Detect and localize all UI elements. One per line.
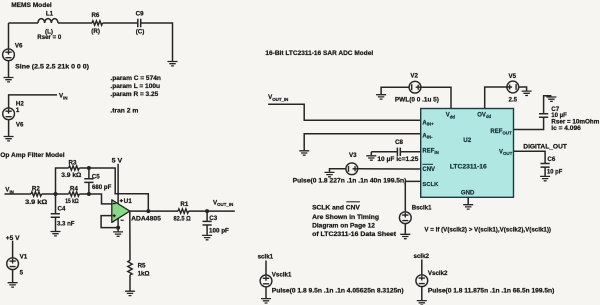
svg-text:ic = 4.096: ic = 4.096 bbox=[551, 125, 581, 132]
wire AIN- to ground bbox=[304, 134, 421, 151]
wire sclk1 to Vsclk1 bbox=[265, 261, 267, 275]
wire chip GND pin bbox=[467, 197, 469, 204]
node A junction bbox=[54, 192, 58, 196]
svg-text:1kΩ: 1kΩ bbox=[138, 270, 150, 277]
svg-text:REFOUT: REFOUT bbox=[490, 129, 512, 136]
svg-text:SCLK and CNV: SCLK and CNV bbox=[312, 205, 361, 212]
svg-text:2.5: 2.5 bbox=[509, 96, 518, 103]
svg-text:PWL(0 0 .1u 5): PWL(0 0 .1u 5) bbox=[395, 96, 439, 103]
wire V6 to ground bbox=[8, 61, 10, 77]
svg-text:REFIN: REFIN bbox=[422, 148, 438, 155]
wire non-inverting input loop bbox=[101, 216, 118, 228]
ground below V6 bbox=[4, 78, 14, 82]
note SCLK timing text bbox=[312, 202, 396, 238]
ground below H2 bbox=[4, 137, 14, 141]
wire V3 left to ground bbox=[330, 169, 346, 172]
ground left of V3 bbox=[325, 172, 335, 176]
svg-text:R5: R5 bbox=[138, 262, 146, 269]
op-amp U1 bbox=[112, 198, 161, 223]
svg-text:VOUT: VOUT bbox=[499, 150, 513, 157]
wire V3 to CNV bbox=[358, 168, 421, 170]
svg-text:(R): (R) bbox=[91, 28, 100, 35]
wire top rail left bbox=[9, 22, 39, 24]
inductor L1 bbox=[37, 10, 62, 41]
svg-text:3.9 kΩ: 3.9 kΩ bbox=[25, 199, 47, 206]
ground below C6 bbox=[540, 176, 550, 180]
capacitor C6 bbox=[541, 156, 563, 176]
svg-text:L1: L1 bbox=[46, 10, 54, 17]
svg-text:3.9 kΩ: 3.9 kΩ bbox=[61, 172, 81, 179]
wire Vout to C6 bbox=[514, 151, 546, 163]
resistor R2 bbox=[25, 185, 47, 206]
svg-text:Sine (2.5 2.5 21k 0 0 0): Sine (2.5 2.5 21k 0 0 0) bbox=[15, 63, 89, 70]
voltage source V1 bbox=[7, 254, 28, 277]
wire H2 to VIN flag bbox=[9, 95, 57, 108]
svg-text:1: 1 bbox=[16, 107, 20, 114]
wire V5 right to ground bbox=[519, 87, 527, 91]
wire Bsclk1 to ground bbox=[404, 224, 406, 234]
wire 5V supply pin bbox=[117, 164, 119, 204]
wire R4 to inverting input bbox=[79, 194, 112, 204]
svg-text:Pulse(0 1.8 9.5n .1n .1n 4.056: Pulse(0 1.8 9.5n .1n .1n 4.05625n 8.3125… bbox=[272, 287, 404, 294]
svg-text:R4: R4 bbox=[70, 186, 78, 193]
svg-text:LTC2311-16: LTC2311-16 bbox=[450, 163, 487, 170]
wire V- pin down bbox=[117, 218, 119, 231]
wire sclk2 to Vsclk2 bbox=[421, 260, 423, 275]
junction V- node bbox=[116, 226, 120, 230]
svg-text:16-Bit LTC2311-16 SAR ADC Mode: 16-Bit LTC2311-16 SAR ADC Model bbox=[265, 50, 373, 57]
svg-text:82.5 Ω: 82.5 Ω bbox=[174, 216, 191, 223]
svg-text:Are Shown in Timing: Are Shown in Timing bbox=[312, 214, 379, 221]
voltage source Vsclk2 bbox=[416, 270, 554, 295]
svg-text:.param R = 3.25: .param R = 3.25 bbox=[110, 91, 158, 98]
resistor R5 bbox=[128, 260, 150, 277]
svg-text:Vdd: Vdd bbox=[446, 113, 456, 120]
svg-text:of LTC2311-16 Data Sheet: of LTC2311-16 Data Sheet bbox=[312, 231, 396, 238]
svg-text:OVdd: OVdd bbox=[477, 113, 491, 120]
svg-text:V5: V5 bbox=[509, 73, 517, 80]
junction C3 node bbox=[205, 209, 209, 213]
svg-text:Pulse(0 1.8 11.875n .1n .1n 66: Pulse(0 1.8 11.875n .1n .1n 66.5n 199.5n… bbox=[428, 288, 554, 295]
wire C8 left to ground bbox=[370, 152, 372, 156]
svg-text:V1: V1 bbox=[20, 254, 28, 261]
svg-text:CNV: CNV bbox=[422, 167, 435, 173]
svg-text:C5: C5 bbox=[92, 173, 100, 180]
svg-text:Pulse(0 1.8 227n .1n .1n 40n 1: Pulse(0 1.8 227n .1n .1n 40n 199.5n) bbox=[293, 178, 407, 185]
capacitor C4 bbox=[51, 194, 75, 231]
wire Vsclk1 to ground bbox=[265, 287, 267, 298]
wire VIN to R2 bbox=[5, 193, 32, 195]
ground below Vsclk1 bbox=[261, 299, 271, 303]
svg-text:R6: R6 bbox=[91, 12, 99, 19]
svg-text:C8: C8 bbox=[395, 139, 403, 146]
ground left of V2 bbox=[376, 95, 386, 99]
svg-text:V6: V6 bbox=[15, 43, 23, 50]
svg-text:DIGITAL_OUT: DIGITAL_OUT bbox=[523, 143, 567, 150]
svg-text:U2: U2 bbox=[463, 137, 471, 144]
junction C5 bottom bbox=[87, 192, 91, 196]
svg-text:5: 5 bbox=[20, 270, 24, 277]
ground below Bsclk1 bbox=[400, 234, 410, 238]
IC U2 LTC2311-16 bbox=[421, 109, 514, 198]
ground right of V5 bbox=[522, 91, 532, 95]
wire op-amp output bbox=[130, 210, 178, 212]
svg-text:.tran 2 m: .tran 2 m bbox=[110, 107, 138, 114]
voltage source V2 bbox=[395, 72, 439, 103]
ground above C7 bbox=[546, 97, 556, 101]
svg-text:.param C = 574n: .param C = 574n bbox=[110, 75, 161, 82]
svg-text:R3: R3 bbox=[69, 159, 77, 166]
resistor R6 bbox=[91, 12, 102, 35]
wire R6 to C9 bbox=[103, 22, 138, 24]
wire SCLK to Bsclk1 bbox=[405, 181, 420, 211]
svg-text:C6: C6 bbox=[547, 156, 555, 163]
capacitor C9 bbox=[136, 10, 145, 35]
svg-text:C9: C9 bbox=[136, 10, 144, 17]
svg-text:C3: C3 bbox=[209, 215, 217, 222]
svg-text:100 pF: 100 pF bbox=[209, 228, 229, 235]
svg-text:MEMS Model: MEMS Model bbox=[11, 2, 52, 9]
wire +5V to V1 bbox=[12, 241, 14, 258]
svg-text:sclk1: sclk1 bbox=[258, 253, 274, 260]
svg-text:U1: U1 bbox=[124, 198, 133, 205]
svg-text:Vsclk1: Vsclk1 bbox=[272, 272, 292, 279]
svg-text:R1: R1 bbox=[180, 201, 188, 208]
wire R3 to feedback corner bbox=[79, 168, 148, 211]
svg-text:680 pF: 680 pF bbox=[92, 184, 112, 191]
wire R2 to node A bbox=[42, 193, 56, 195]
junction C5 top bbox=[87, 166, 91, 170]
ground below Vsclk2 bbox=[417, 301, 427, 305]
capacitor C8 bbox=[371, 139, 420, 163]
wire Vsclk2 to ground bbox=[421, 287, 423, 300]
svg-text:Op Amp Filter Model: Op Amp Filter Model bbox=[0, 152, 64, 159]
wire V6 riser bbox=[8, 23, 10, 49]
capacitor C7 bbox=[539, 96, 600, 133]
svg-text:10 pF: 10 pF bbox=[547, 169, 562, 176]
ground below C4 bbox=[51, 232, 61, 236]
ground below V1 bbox=[8, 283, 18, 287]
voltage source V6 bbox=[3, 43, 89, 71]
svg-text:C4: C4 bbox=[58, 206, 66, 213]
wire V2 left to ground bbox=[381, 87, 409, 94]
voltage source V5 bbox=[507, 73, 519, 103]
capacitor C3 bbox=[203, 211, 230, 235]
source H2 bbox=[3, 101, 25, 129]
svg-text:Bsclk1: Bsclk1 bbox=[412, 204, 432, 211]
voltage source V3 bbox=[293, 152, 407, 185]
resistor R3 bbox=[61, 159, 81, 179]
wire node A up to R3 rail bbox=[56, 168, 69, 194]
svg-text:V2: V2 bbox=[410, 72, 418, 79]
svg-text:sclk2: sclk2 bbox=[414, 253, 430, 260]
svg-text:V3: V3 bbox=[349, 152, 357, 159]
wire C9 to ground corner bbox=[141, 23, 173, 61]
spice directives bbox=[110, 75, 161, 114]
svg-text:15 kΩ: 15 kΩ bbox=[65, 198, 78, 205]
wire V5 to OVdd bbox=[485, 87, 507, 109]
svg-text:3.3 nF: 3.3 nF bbox=[57, 220, 75, 227]
svg-text:V = If (V(sclk2) > V(sclk1),V(: V = If (V(sclk2) > V(sclk1),V(sclk2),V(s… bbox=[424, 227, 551, 234]
svg-text:AIN-: AIN- bbox=[422, 133, 433, 139]
wire V2 to Vdd bbox=[421, 87, 451, 108]
ground at AIN- bbox=[299, 151, 309, 155]
svg-text:GND: GND bbox=[461, 190, 475, 196]
wire VOUT_IN to AIN+ bbox=[268, 104, 421, 120]
svg-text:.param L = 100u: .param L = 100u bbox=[110, 83, 160, 90]
svg-text:AIN+: AIN+ bbox=[422, 120, 434, 126]
junction feedback at output bbox=[146, 209, 150, 213]
wire L1 to R6 bbox=[58, 22, 92, 24]
svg-text:5 V: 5 V bbox=[112, 158, 124, 165]
ground left of C8 bbox=[366, 156, 376, 160]
svg-text:ADA4805: ADA4805 bbox=[131, 215, 161, 222]
svg-text:Rser = 0: Rser = 0 bbox=[37, 34, 62, 41]
resistor R4 bbox=[65, 186, 79, 206]
wire output to R5 bbox=[129, 211, 131, 260]
voltage source Vsclk1 bbox=[260, 272, 403, 295]
svg-text:R2: R2 bbox=[32, 185, 40, 192]
ground below C3 bbox=[202, 235, 212, 239]
wire V1 to ground bbox=[12, 270, 14, 283]
resistor R1 bbox=[174, 201, 191, 223]
ground below R5 bbox=[125, 291, 135, 295]
svg-text:V6: V6 bbox=[16, 121, 24, 128]
wire H2 to ground bbox=[8, 120, 10, 136]
wire node A to R4 bbox=[56, 193, 69, 195]
ground below chip bbox=[463, 205, 473, 209]
capacitor C5 bbox=[84, 168, 111, 194]
ground below op-amp bbox=[113, 232, 123, 236]
ground MEMS output bbox=[168, 62, 178, 66]
svg-text:Diagram on Page 12: Diagram on Page 12 bbox=[312, 222, 375, 229]
svg-text:10 µF ic=1.25: 10 µF ic=1.25 bbox=[377, 156, 419, 163]
source Bsclk1 bbox=[399, 204, 551, 233]
wire R5 to ground bbox=[129, 275, 131, 291]
wire REFout to C7 bbox=[514, 117, 544, 129]
svg-text:Vsclk2: Vsclk2 bbox=[428, 270, 448, 277]
svg-text:SCLK: SCLK bbox=[422, 182, 439, 188]
wire R1 to VOUT,IN flag bbox=[189, 210, 235, 212]
svg-text:(C): (C) bbox=[136, 29, 145, 36]
